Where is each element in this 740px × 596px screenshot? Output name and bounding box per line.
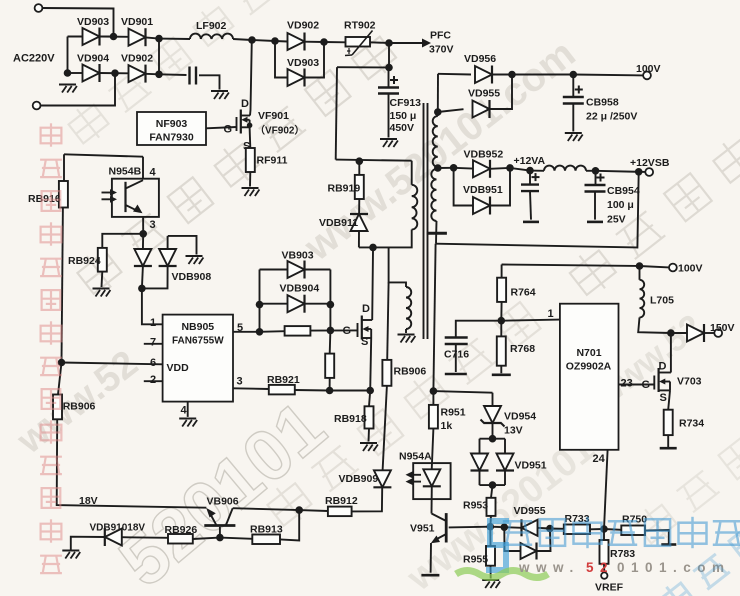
svg-text:RB926: RB926 (165, 524, 198, 536)
junction pin1 node (498, 317, 506, 325)
junction (111, 69, 119, 77)
wire (305, 303, 331, 305)
junction +12VSB node (635, 168, 643, 176)
wire (352, 488, 383, 511)
wire pin4 (187, 402, 189, 417)
resistor RF911 (246, 148, 255, 172)
svg-text:CF913: CF913 (390, 97, 422, 109)
wire (573, 74, 643, 77)
wire (299, 509, 328, 512)
wire (102, 234, 143, 248)
svg-text:VF901: VF901 (258, 110, 289, 122)
wire (405, 329, 407, 333)
svg-text:V703: V703 (677, 376, 702, 388)
transformer return bar (427, 232, 447, 235)
junction node N17 (369, 244, 377, 252)
wire (489, 516, 492, 527)
svg-text:VD954: VD954 (504, 411, 536, 423)
wire pin5 (233, 331, 260, 333)
wire (454, 167, 473, 170)
svg-text:1: 1 (548, 308, 554, 320)
wire (329, 378, 331, 391)
ground bar (445, 373, 467, 376)
svg-text:VD951: VD951 (515, 460, 547, 472)
transformer core (424, 103, 428, 339)
wire (252, 40, 275, 41)
svg-text:13V: 13V (504, 425, 523, 437)
svg-text:VD903: VD903 (77, 16, 109, 28)
wire (489, 527, 491, 546)
wire (260, 303, 288, 305)
wire (479, 470, 481, 486)
svg-text:R764: R764 (511, 287, 536, 299)
inductor LF902 (190, 34, 233, 39)
terminal 100V (643, 72, 651, 80)
wire (67, 37, 69, 74)
wire pin6 (62, 363, 163, 365)
wire (512, 74, 573, 76)
wire 18V rail (57, 419, 207, 507)
diode VDB910 (105, 528, 122, 546)
wire (491, 485, 493, 498)
wire (455, 344, 457, 372)
svg-text:N954A: N954A (399, 451, 432, 463)
resistor RB913 (252, 535, 280, 545)
junction (508, 71, 516, 79)
junction (64, 69, 72, 77)
svg-text:OZ9902A: OZ9902A (566, 361, 612, 373)
junction (138, 285, 146, 293)
wire pin2 stub (144, 380, 163, 382)
ground bar (523, 221, 539, 224)
wire (433, 391, 492, 393)
diode VD951b (496, 454, 514, 471)
svg-text:N954B: N954B (109, 166, 142, 178)
diode VD903 (83, 28, 100, 46)
wire (480, 484, 506, 486)
wire (260, 330, 285, 333)
svg-text:22 μ /250V: 22 μ /250V (586, 111, 637, 123)
ground (398, 335, 416, 343)
wire (158, 39, 160, 75)
optocoupler N954B phototransistor (126, 180, 144, 213)
capacitor CB958 (563, 86, 584, 104)
wire (529, 171, 531, 185)
wire (63, 154, 65, 181)
transistor VB906 (204, 508, 235, 526)
svg-text:RB913: RB913 (250, 524, 283, 536)
wire (68, 36, 114, 38)
svg-text:D: D (241, 98, 249, 110)
wire (667, 435, 669, 447)
wire (510, 168, 530, 171)
wire (100, 72, 129, 74)
svg-text:RB924: RB924 (68, 255, 101, 267)
junction VF902 source node (366, 387, 374, 395)
junction (636, 262, 644, 270)
wire (167, 236, 169, 250)
resistor RB906 (left) (53, 395, 62, 420)
wire (438, 167, 454, 169)
wire (638, 318, 671, 334)
diode VD955a (522, 519, 538, 536)
wire (411, 161, 413, 185)
svg-text:RB906: RB906 (394, 366, 427, 378)
wire (594, 192, 596, 220)
junction R951 node (430, 387, 438, 395)
PFC output arrow (389, 42, 422, 44)
junction node N4 (271, 37, 279, 45)
wire (538, 527, 550, 530)
inductor (12V filter) (544, 166, 586, 171)
wire (280, 510, 299, 540)
svg-text:AC220V: AC220V (13, 53, 55, 65)
svg-text:450V: 450V (390, 122, 415, 134)
svg-text:RF911: RF911 (257, 155, 288, 167)
svg-text:VD904: VD904 (77, 53, 109, 65)
LED N954A (423, 469, 441, 486)
wire (199, 75, 220, 89)
wire (500, 366, 502, 374)
wire (704, 332, 715, 334)
mosfet VF901 (237, 110, 251, 134)
svg-text:23: 23 (621, 378, 633, 390)
IC NF903 FAN7930 (137, 112, 206, 145)
wire (71, 537, 105, 551)
wire (537, 529, 551, 552)
wire (330, 390, 371, 392)
terminal AC input N (33, 102, 41, 110)
wire (337, 66, 389, 68)
wire (530, 170, 544, 172)
wire pin4 stub (142, 157, 144, 179)
capacitor C716 (445, 338, 468, 345)
wire (310, 329, 357, 331)
wire (387, 282, 388, 360)
wire (504, 526, 522, 529)
wire secondary return (436, 172, 639, 248)
svg-text:25V: 25V (607, 214, 626, 226)
junction (110, 33, 118, 41)
svg-text:1k: 1k (441, 420, 453, 432)
wire (142, 288, 163, 324)
svg-text:VREF: VREF (595, 582, 624, 594)
optocoupler N954B box (112, 179, 159, 217)
IC NB905 FAN6755W (163, 315, 233, 402)
svg-text:VD903: VD903 (287, 57, 319, 69)
svg-text:6: 6 (150, 357, 156, 369)
wire (504, 527, 521, 551)
resistor RB919 (355, 175, 364, 199)
ground bar (661, 543, 676, 546)
junction (489, 435, 497, 443)
svg-text:D: D (659, 361, 667, 373)
wire (62, 208, 63, 363)
svg-text:150V: 150V (710, 322, 735, 334)
junction (487, 523, 495, 531)
junction pin6 node (58, 359, 66, 367)
wire 100V lower rail (502, 265, 640, 267)
optocoupler N954B light arrows (102, 189, 118, 203)
wire (388, 94, 390, 138)
svg-text:NB905: NB905 (181, 321, 214, 333)
transistor V951 (431, 513, 446, 543)
wire (329, 330, 332, 353)
svg-text:RB919: RB919 (328, 183, 361, 195)
diode VDB908a (134, 249, 152, 266)
resistor RB926 (168, 534, 193, 544)
diode VD902 (PFC) (288, 33, 305, 51)
svg-text:100 μ: 100 μ (607, 199, 634, 211)
wire (275, 41, 288, 78)
svg-text:370V: 370V (429, 44, 454, 56)
wire (305, 42, 325, 78)
svg-text:FAN6755W: FAN6755W (172, 336, 224, 347)
wire (58, 363, 62, 395)
resistor R734 (664, 410, 673, 435)
wire (479, 439, 481, 455)
svg-text:1: 1 (150, 317, 156, 329)
wire pin24 (604, 450, 608, 529)
wire (490, 167, 510, 170)
svg-text:VD901: VD901 (121, 16, 153, 28)
junction (570, 71, 578, 79)
svg-text:R955: R955 (463, 554, 488, 566)
transformer secondary winding D (431, 169, 436, 221)
svg-text:VD902: VD902 (287, 20, 319, 32)
ground (360, 443, 378, 451)
resistor R955 (486, 546, 495, 566)
wire (431, 486, 433, 513)
resistor R750 (621, 526, 645, 536)
wire VD955 anode (438, 109, 464, 112)
wire (640, 266, 670, 267)
junction (546, 525, 554, 533)
svg-text:VDB904: VDB904 (280, 283, 320, 295)
wire (142, 266, 168, 288)
wire (146, 73, 160, 76)
wire (40, 73, 115, 105)
junction (506, 164, 514, 172)
wire (454, 168, 473, 206)
svg-text:S: S (361, 336, 368, 348)
thermistor RT902 (346, 37, 371, 47)
junction VF901 source (247, 123, 253, 129)
wire (233, 39, 252, 40)
svg-text:G: G (224, 124, 233, 136)
wire (388, 68, 390, 88)
diode VDB911 (350, 214, 368, 231)
svg-text:VDB908: VDB908 (172, 271, 212, 283)
svg-text:RB912: RB912 (325, 495, 358, 507)
wire supply to N954B (64, 154, 143, 156)
junction (450, 164, 458, 172)
svg-text:RB918: RB918 (334, 413, 367, 425)
svg-text:S: S (660, 392, 667, 404)
svg-text:4: 4 (150, 167, 157, 179)
mosfet V703 (654, 368, 671, 392)
diode VD903 (PFC) (288, 69, 305, 87)
ground (179, 419, 197, 427)
ground (482, 580, 500, 588)
svg-text:RB921: RB921 (267, 374, 300, 386)
wire (572, 104, 574, 132)
svg-text:24: 24 (593, 453, 606, 465)
svg-text:V951: V951 (410, 523, 435, 535)
wire (603, 529, 605, 540)
junction (434, 164, 442, 172)
svg-text:VD956: VD956 (464, 53, 496, 65)
svg-text:LF902: LF902 (196, 20, 227, 32)
diode VD955b (521, 543, 537, 560)
ground (380, 139, 398, 147)
junction (326, 387, 334, 395)
diode VD904 (83, 64, 100, 82)
optocoupler N954A box (413, 463, 450, 499)
svg-text:R953: R953 (463, 500, 488, 512)
svg-text:VD902: VD902 (121, 53, 153, 65)
junction (216, 534, 224, 542)
wire (590, 528, 604, 530)
svg-text:VDD: VDD (167, 362, 190, 374)
junction node N1 (155, 35, 163, 43)
wire (249, 127, 252, 148)
wire V951 base (449, 526, 491, 529)
diode VD951a (471, 454, 489, 471)
svg-text:RB906: RB906 (63, 401, 96, 413)
svg-text:D: D (362, 303, 370, 315)
svg-text:VDB911: VDB911 (319, 217, 358, 229)
wire VF902 drain (371, 247, 374, 320)
capacitor CB954 (585, 174, 606, 192)
diode VDB908b (159, 249, 177, 266)
wire (358, 161, 360, 175)
svg-text:CB958: CB958 (586, 97, 619, 109)
svg-text:R951: R951 (441, 407, 466, 419)
ground (59, 85, 77, 93)
wire (305, 269, 331, 271)
wire (671, 332, 688, 334)
wire (358, 231, 360, 247)
wire (368, 429, 371, 442)
svg-text:CB954: CB954 (607, 185, 640, 197)
wire (438, 73, 471, 76)
wire (168, 236, 197, 255)
junction node N7 (385, 64, 393, 72)
wire (383, 386, 387, 471)
svg-text:150 μ: 150 μ (390, 110, 417, 122)
wire (359, 230, 412, 248)
wire (639, 266, 641, 280)
ground bar V951 (421, 574, 439, 577)
wire (604, 528, 621, 531)
wire (159, 38, 190, 40)
wire (480, 438, 506, 440)
wire (504, 439, 506, 455)
junction node N8 (356, 157, 364, 165)
wire (249, 172, 251, 187)
svg-text:NF903: NF903 (156, 118, 188, 130)
wire (101, 272, 104, 287)
wire (275, 40, 288, 43)
wire (388, 43, 390, 68)
wire (572, 75, 574, 98)
wire pin7 stub (144, 343, 163, 345)
wire (389, 248, 406, 287)
wire (490, 526, 504, 529)
wire (122, 536, 168, 539)
wire (487, 75, 513, 110)
junction (256, 328, 264, 336)
diode VD902 (129, 65, 146, 83)
junction (489, 481, 497, 489)
wire (42, 8, 113, 37)
svg-text:100V: 100V (678, 263, 703, 275)
svg-text:（VF902）: （VF902） (255, 124, 304, 137)
svg-text:7: 7 (150, 337, 156, 349)
svg-text:L705: L705 (650, 295, 674, 307)
resistor RB916 (59, 181, 68, 208)
wire (358, 199, 360, 214)
terminal 150V (714, 329, 722, 337)
svg-text:+12VSB: +12VSB (630, 157, 670, 169)
wire (490, 566, 492, 579)
wire (259, 270, 261, 332)
wire (586, 170, 596, 172)
wire V703 source (668, 390, 670, 409)
wire (370, 41, 389, 44)
junction node N6 (385, 39, 393, 47)
ground (186, 256, 204, 264)
wire (295, 389, 330, 392)
junction +12VA node (526, 167, 534, 175)
svg-text:+12VA: +12VA (514, 155, 546, 167)
wire (220, 538, 252, 539)
IC N701 OZ9902A (560, 304, 619, 450)
wire (501, 265, 503, 278)
svg-text:R783: R783 (610, 548, 635, 560)
svg-text:VDB952: VDB952 (464, 149, 504, 161)
svg-text:G: G (642, 379, 651, 391)
wire (490, 168, 510, 206)
resistor RB906 (right) (382, 360, 391, 386)
ground (211, 91, 229, 99)
wire V703 drain (670, 333, 672, 373)
inductor L705 (640, 280, 645, 318)
wire pin23 gate (619, 384, 655, 386)
ground bar (587, 221, 603, 224)
wire (336, 67, 337, 159)
junction (434, 108, 442, 116)
wire (504, 470, 506, 486)
wire (233, 508, 300, 510)
wire (432, 429, 434, 471)
wire (596, 171, 639, 172)
wire (142, 234, 144, 250)
svg-text:VDB951: VDB951 (463, 184, 503, 196)
wire (336, 160, 412, 161)
junction node N2 (155, 71, 163, 79)
thermistor strike (345, 31, 373, 56)
wire (492, 423, 494, 439)
svg-text:3: 3 (150, 219, 156, 231)
svg-text:VDB909: VDB909 (339, 473, 379, 485)
wire (595, 171, 597, 185)
junction node 18V/RB912 (295, 506, 303, 514)
wire (492, 393, 494, 408)
svg-text:VB903: VB903 (282, 250, 314, 262)
wire (430, 543, 432, 573)
